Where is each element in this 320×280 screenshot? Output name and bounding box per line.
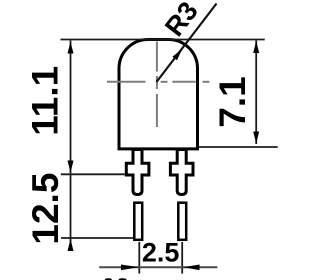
- svg-text:7.1: 7.1: [212, 76, 253, 127]
- svg-text:12.5: 12.5: [25, 173, 66, 245]
- svg-text:2.5: 2.5: [142, 238, 180, 268]
- svg-text:11.1: 11.1: [25, 66, 66, 136]
